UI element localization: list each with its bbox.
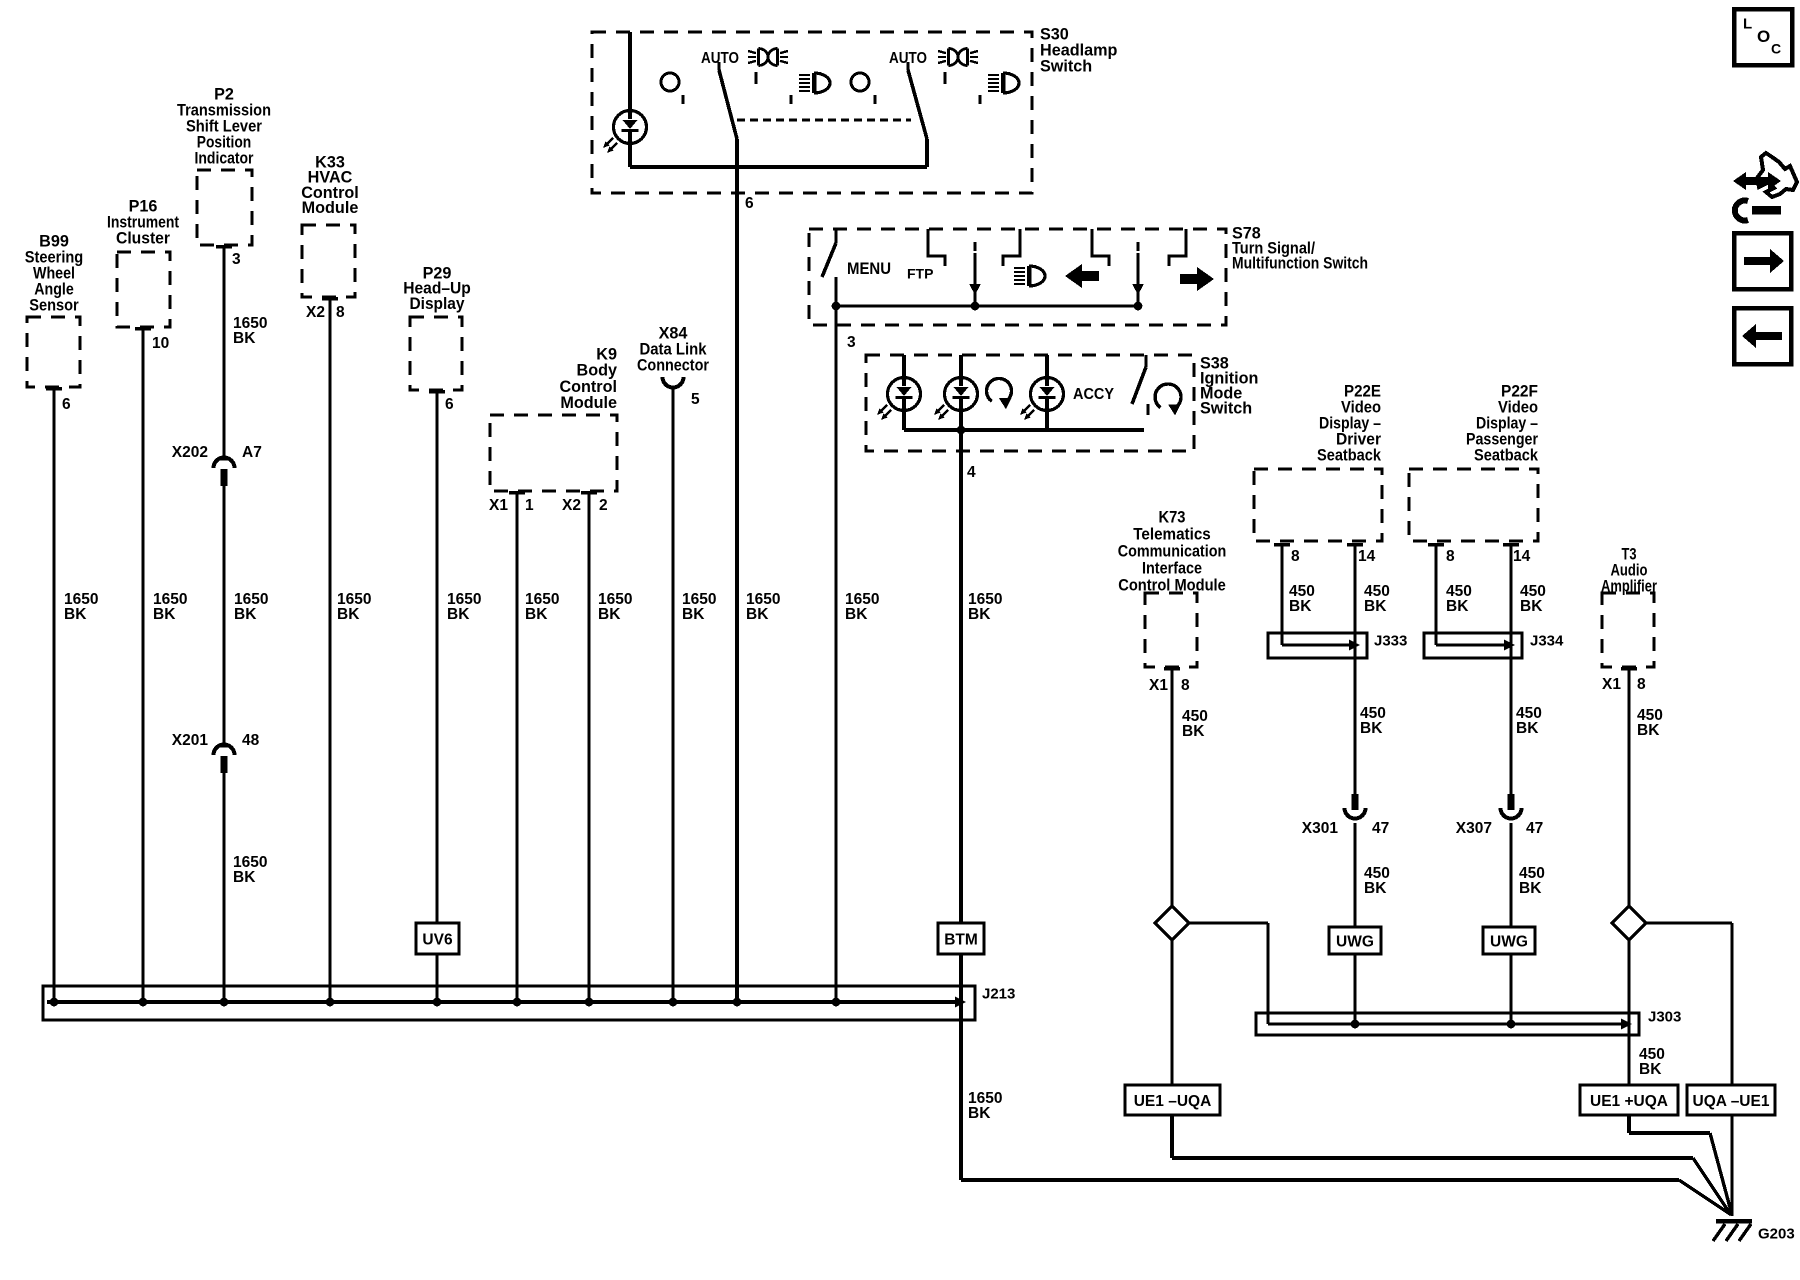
svg-text:J333: J333 bbox=[1374, 632, 1407, 649]
svg-text:2: 2 bbox=[599, 497, 608, 514]
svg-text:A7: A7 bbox=[242, 444, 262, 461]
svg-text:5: 5 bbox=[691, 391, 700, 408]
svg-text:X307: X307 bbox=[1456, 820, 1492, 837]
svg-text:BK: BK bbox=[447, 606, 470, 623]
svg-text:X301: X301 bbox=[1302, 820, 1339, 837]
svg-text:Control Module: Control Module bbox=[1118, 576, 1226, 594]
svg-text:BK: BK bbox=[1182, 723, 1205, 740]
svg-text:L: L bbox=[1743, 15, 1752, 32]
svg-text:Switch: Switch bbox=[1040, 57, 1092, 75]
svg-text:6: 6 bbox=[62, 396, 71, 413]
svg-text:Control: Control bbox=[559, 378, 617, 396]
svg-text:BK: BK bbox=[1520, 598, 1543, 615]
svg-text:UQA –UE1: UQA –UE1 bbox=[1693, 1093, 1770, 1110]
svg-text:47: 47 bbox=[1526, 820, 1543, 837]
svg-text:BK: BK bbox=[233, 330, 256, 347]
svg-text:10: 10 bbox=[152, 335, 169, 352]
svg-text:BK: BK bbox=[1637, 722, 1660, 739]
svg-text:J334: J334 bbox=[1530, 632, 1564, 649]
svg-text:MENU: MENU bbox=[847, 259, 891, 278]
svg-text:BK: BK bbox=[746, 606, 769, 623]
svg-text:6: 6 bbox=[445, 396, 454, 413]
svg-text:ACCY: ACCY bbox=[1073, 386, 1115, 403]
svg-text:Seatback: Seatback bbox=[1474, 446, 1539, 464]
svg-text:BK: BK bbox=[64, 606, 87, 623]
svg-text:47: 47 bbox=[1372, 820, 1389, 837]
svg-text:K73: K73 bbox=[1159, 508, 1186, 526]
svg-text:X1: X1 bbox=[489, 497, 508, 514]
svg-text:BK: BK bbox=[1519, 880, 1542, 897]
svg-text:BK: BK bbox=[682, 606, 705, 623]
svg-text:8: 8 bbox=[1181, 677, 1190, 694]
svg-text:3: 3 bbox=[847, 334, 856, 351]
svg-text:UWG: UWG bbox=[1490, 934, 1528, 951]
svg-text:C: C bbox=[1771, 41, 1781, 57]
svg-text:Module: Module bbox=[560, 394, 617, 412]
svg-text:Switch: Switch bbox=[1200, 399, 1252, 417]
svg-text:BK: BK bbox=[1364, 880, 1387, 897]
svg-text:X202: X202 bbox=[172, 444, 208, 461]
svg-text:BK: BK bbox=[1639, 1061, 1662, 1078]
svg-text:14: 14 bbox=[1358, 548, 1376, 565]
svg-text:G203: G203 bbox=[1758, 1225, 1795, 1242]
svg-text:BK: BK bbox=[525, 606, 548, 623]
svg-text:4: 4 bbox=[967, 464, 976, 481]
svg-text:UE1 –UQA: UE1 –UQA bbox=[1134, 1093, 1212, 1110]
svg-text:Connector: Connector bbox=[637, 356, 710, 374]
svg-text:6: 6 bbox=[745, 195, 754, 212]
svg-text:BK: BK bbox=[598, 606, 621, 623]
svg-text:BK: BK bbox=[1446, 598, 1469, 615]
svg-text:BK: BK bbox=[1289, 598, 1312, 615]
svg-text:BK: BK bbox=[337, 606, 360, 623]
svg-text:O: O bbox=[1757, 27, 1770, 46]
svg-text:Communication: Communication bbox=[1118, 542, 1227, 560]
svg-text:J303: J303 bbox=[1648, 1008, 1681, 1025]
svg-text:BK: BK bbox=[153, 606, 176, 623]
svg-text:Body: Body bbox=[577, 362, 617, 380]
svg-text:BK: BK bbox=[1516, 720, 1539, 737]
svg-text:14: 14 bbox=[1513, 548, 1531, 565]
svg-text:3: 3 bbox=[232, 251, 241, 268]
svg-text:8: 8 bbox=[1637, 676, 1646, 693]
svg-text:8: 8 bbox=[1291, 548, 1300, 565]
svg-text:X2: X2 bbox=[306, 304, 325, 321]
svg-text:Interface: Interface bbox=[1142, 559, 1202, 577]
svg-text:Sensor: Sensor bbox=[29, 296, 79, 314]
svg-text:Module: Module bbox=[302, 199, 359, 217]
svg-text:UV6: UV6 bbox=[422, 932, 453, 949]
svg-text:X201: X201 bbox=[172, 732, 209, 749]
svg-text:X2: X2 bbox=[562, 497, 581, 514]
svg-text:BK: BK bbox=[968, 1105, 991, 1122]
svg-text:BK: BK bbox=[845, 606, 868, 623]
svg-text:Cluster: Cluster bbox=[116, 229, 171, 247]
svg-text:AUTO: AUTO bbox=[701, 50, 739, 67]
svg-text:UE1 +UQA: UE1 +UQA bbox=[1590, 1093, 1668, 1110]
svg-text:BK: BK bbox=[1364, 598, 1387, 615]
svg-text:8: 8 bbox=[336, 304, 345, 321]
svg-text:Display: Display bbox=[410, 295, 465, 313]
svg-text:FTP: FTP bbox=[907, 266, 933, 282]
svg-text:Seatback: Seatback bbox=[1317, 446, 1382, 464]
svg-text:1: 1 bbox=[525, 497, 534, 514]
svg-text:8: 8 bbox=[1446, 548, 1455, 565]
svg-text:AUTO: AUTO bbox=[889, 50, 927, 67]
svg-text:BK: BK bbox=[1360, 720, 1383, 737]
svg-text:Telematics: Telematics bbox=[1133, 525, 1211, 543]
svg-text:BK: BK bbox=[234, 606, 257, 623]
svg-text:48: 48 bbox=[242, 732, 260, 749]
svg-text:UWG: UWG bbox=[1336, 934, 1374, 951]
svg-text:X1: X1 bbox=[1149, 677, 1168, 694]
svg-text:Multifunction Switch: Multifunction Switch bbox=[1232, 254, 1368, 272]
svg-text:X1: X1 bbox=[1602, 676, 1621, 693]
svg-text:K9: K9 bbox=[596, 345, 617, 363]
svg-text:Amplifier: Amplifier bbox=[1601, 577, 1658, 595]
svg-text:BK: BK bbox=[233, 869, 256, 886]
svg-text:Indicator: Indicator bbox=[195, 149, 255, 167]
svg-text:J213: J213 bbox=[982, 985, 1015, 1002]
svg-text:BK: BK bbox=[968, 606, 991, 623]
svg-text:BTM: BTM bbox=[944, 932, 978, 949]
